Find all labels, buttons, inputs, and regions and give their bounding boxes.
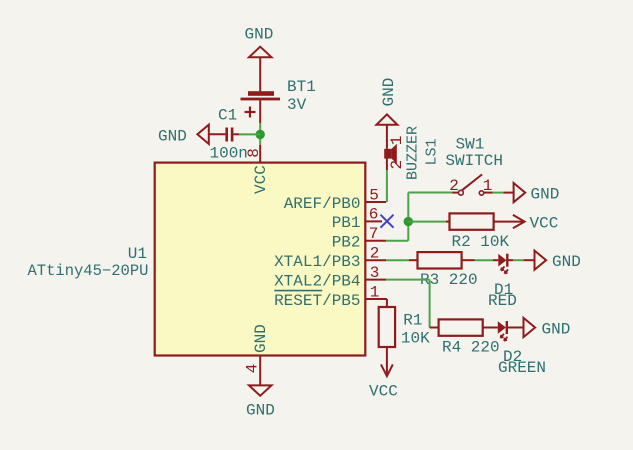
wire battery top to GND xyxy=(259,57,261,91)
svg-text:R2 10K: R2 10K xyxy=(452,233,510,251)
svg-text:6: 6 xyxy=(369,206,379,224)
svg-text:C1: C1 xyxy=(218,107,237,125)
resistor R2 10K xyxy=(446,213,524,251)
svg-text:100n: 100n xyxy=(210,145,248,163)
svg-text:LS1: LS1 xyxy=(424,138,441,165)
svg-text:BUZZER: BUZZER xyxy=(405,126,422,180)
switch SW1 xyxy=(445,136,513,196)
svg-text:R4 220: R4 220 xyxy=(442,339,500,357)
no-connect X on pin 6 xyxy=(381,215,394,228)
svg-text:10K: 10K xyxy=(401,329,430,347)
svg-text:GREEN: GREEN xyxy=(498,359,546,377)
wire battery to node VCC xyxy=(259,123,261,145)
junction (PB2 net) xyxy=(404,217,413,226)
ground GND (switch) xyxy=(514,183,560,203)
svg-text:VCC: VCC xyxy=(530,214,559,232)
svg-text:GND: GND xyxy=(531,185,560,203)
ground GND (left of C1) xyxy=(158,125,209,146)
ground GND (D2) xyxy=(524,318,571,338)
wire pin 5 to buzzer xyxy=(386,170,388,202)
wire pin 1 to R1 (corner) xyxy=(386,299,388,307)
wire D1 to GND xyxy=(513,259,524,261)
diode D2 GREEN led xyxy=(498,321,546,377)
wire R3 to D1 xyxy=(475,259,494,261)
svg-text:GND: GND xyxy=(252,324,270,353)
svg-text:PB2: PB2 xyxy=(332,234,361,252)
svg-text:XTAL1/PB3: XTAL1/PB3 xyxy=(274,253,360,271)
pin 2 XTAL1/PB3 xyxy=(274,245,386,272)
ground GND (top, above battery) xyxy=(245,25,274,57)
svg-text:SWITCH: SWITCH xyxy=(445,152,503,170)
svg-text:GND: GND xyxy=(245,25,274,43)
svg-text:2: 2 xyxy=(388,160,406,170)
power VCC (right of R2) xyxy=(513,214,558,232)
svg-text:U1: U1 xyxy=(128,245,147,263)
svg-text:1: 1 xyxy=(370,283,380,301)
svg-text:GND: GND xyxy=(246,401,275,419)
svg-text:5: 5 xyxy=(369,186,379,204)
wire C1 to junction xyxy=(239,133,260,135)
svg-text:8: 8 xyxy=(245,148,263,158)
svg-text:1: 1 xyxy=(388,136,406,146)
IC U1 ATtiny45-20PU body xyxy=(155,163,366,356)
svg-text:SW1: SW1 xyxy=(456,136,485,154)
svg-text:GND: GND xyxy=(542,320,571,338)
svg-text:7: 7 xyxy=(369,225,379,243)
svg-text:R1: R1 xyxy=(403,312,422,330)
battery BT1 xyxy=(241,78,316,123)
buzzer LS1 xyxy=(384,125,440,180)
pin 1 RESET/PB5 xyxy=(274,283,387,310)
svg-text:2: 2 xyxy=(449,177,459,195)
svg-text:1: 1 xyxy=(483,177,493,195)
pin 4 GND (bottom) xyxy=(244,324,271,385)
wire pin 3 to R4 (corner) xyxy=(386,279,429,281)
svg-text:RESET/PB5: RESET/PB5 xyxy=(274,292,360,310)
svg-text:GND: GND xyxy=(552,253,581,271)
ground GND (below chip pin 4) xyxy=(246,385,275,419)
svg-text:2: 2 xyxy=(370,245,380,263)
wire vertical net PB2 column xyxy=(407,193,409,241)
wire junction to R2 xyxy=(408,221,446,223)
svg-text:VCC: VCC xyxy=(369,383,398,401)
svg-text:ATtiny45−20PU: ATtiny45−20PU xyxy=(28,262,149,280)
capacitor C1 100n xyxy=(209,107,248,163)
svg-text:VCC: VCC xyxy=(252,165,270,194)
ground GND (D1) xyxy=(524,251,581,271)
resistor R4 220 xyxy=(430,319,500,356)
svg-text:3: 3 xyxy=(370,264,380,282)
pin 7 PB2 xyxy=(332,225,387,252)
ground GND (above buzzer) xyxy=(376,78,398,125)
wire pin 2 to R3 xyxy=(386,259,409,261)
resistor R1 10K (vertical) xyxy=(379,307,430,375)
svg-text:RED: RED xyxy=(488,292,517,310)
wire to switch xyxy=(408,192,452,194)
svg-text:BT1: BT1 xyxy=(287,78,316,96)
pin 6 PB1 xyxy=(332,206,382,233)
pin 3 XTAL2/PB4 xyxy=(274,264,386,291)
diode D1 RED led xyxy=(488,254,517,310)
wire pin 7 to junction column xyxy=(386,240,408,242)
svg-text:4: 4 xyxy=(244,364,262,374)
pin 5 AREF/PB0 xyxy=(284,186,387,213)
resistor R3 220 xyxy=(409,252,478,289)
svg-text:GND: GND xyxy=(158,127,187,145)
svg-text:XTAL2/PB4: XTAL2/PB4 xyxy=(274,272,360,290)
power VCC (below R1) xyxy=(369,364,398,400)
svg-text:GND: GND xyxy=(380,78,398,107)
pin 8 VCC (top) xyxy=(245,145,270,194)
svg-text:3V: 3V xyxy=(287,96,307,114)
junction (C1 / battery / pin 8) xyxy=(256,130,265,139)
svg-text:PB1: PB1 xyxy=(332,214,361,232)
svg-text:AREF/PB0: AREF/PB0 xyxy=(284,195,361,213)
